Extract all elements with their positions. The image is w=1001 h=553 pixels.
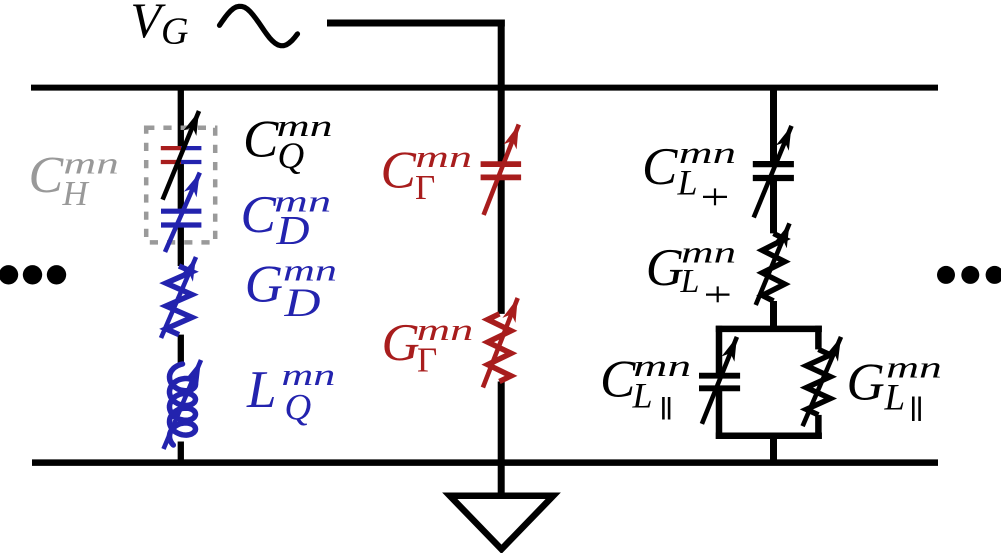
svg-text:G: G bbox=[646, 239, 684, 297]
svg-text:G: G bbox=[382, 314, 420, 372]
svg-text:L: L bbox=[246, 361, 276, 419]
svg-text:Q: Q bbox=[285, 388, 312, 429]
svg-text:L: L bbox=[680, 263, 700, 300]
svg-text:C: C bbox=[600, 350, 636, 408]
svg-text:C: C bbox=[29, 147, 65, 204]
svg-text:mn: mn bbox=[281, 357, 335, 392]
svg-text:L: L bbox=[884, 378, 906, 419]
svg-text:C: C bbox=[642, 138, 678, 196]
svg-text:G: G bbox=[245, 255, 283, 313]
svg-text:D: D bbox=[275, 207, 309, 253]
svg-text:G: G bbox=[161, 11, 188, 53]
svg-text:L: L bbox=[677, 163, 698, 203]
svg-text:L: L bbox=[632, 375, 653, 415]
svg-text:Γ: Γ bbox=[417, 341, 437, 380]
svg-text:G: G bbox=[847, 354, 885, 412]
svg-text:H: H bbox=[62, 174, 90, 213]
svg-text:Γ: Γ bbox=[415, 168, 435, 207]
svg-text:C: C bbox=[243, 111, 279, 169]
svg-text:Q: Q bbox=[278, 136, 305, 177]
svg-text:D: D bbox=[283, 280, 320, 325]
svg-text:C: C bbox=[381, 142, 417, 200]
svg-text:C: C bbox=[241, 186, 277, 244]
